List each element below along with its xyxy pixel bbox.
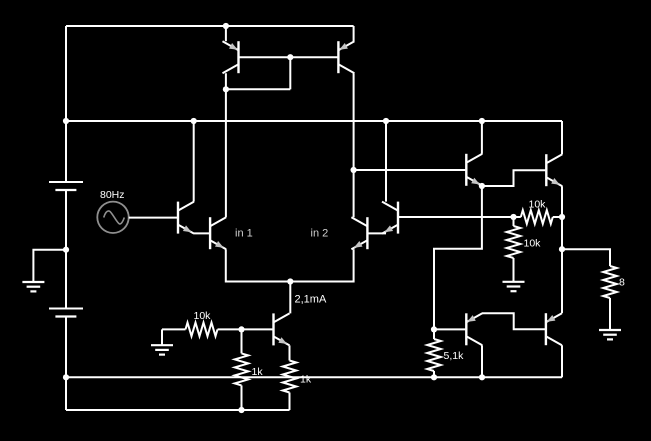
node rail121 Q5 <box>383 118 389 124</box>
node left mid <box>63 247 69 253</box>
svg-text:8: 8 <box>619 276 625 288</box>
wire R6 to ground <box>513 258 515 281</box>
wire battery B2 down <box>65 317 67 378</box>
wire battery B1 to node <box>65 190 67 250</box>
ground GND2 <box>151 345 173 354</box>
label 10k R1 <box>194 310 212 322</box>
wire Q3 emitter to Q4 base <box>194 232 210 234</box>
resistor R6 10k <box>507 226 521 258</box>
label 5,1k R4 <box>444 350 465 362</box>
wire Q5 base feedback <box>398 216 514 218</box>
node mirror base <box>287 54 293 60</box>
wire left column upper <box>65 26 67 182</box>
wire Q11 collector down <box>561 345 563 377</box>
wire GND2 to R1 <box>162 328 186 330</box>
node bottom rail <box>238 407 244 413</box>
wire Q9 emitter down <box>561 186 563 313</box>
node tail <box>287 278 293 284</box>
wire Q1 collector down to Q4 <box>225 73 227 217</box>
wire V1 to Q3 base <box>129 217 178 219</box>
battery B2 short plate <box>55 315 76 317</box>
ac source V1 <box>97 202 128 233</box>
resistor R5 10k <box>521 210 553 224</box>
wire node to Q10 base <box>434 328 466 330</box>
wire Q4 emitter down <box>226 249 290 281</box>
wire Q7 emitter to R3 <box>289 345 291 360</box>
resistor R3 1k <box>283 361 297 393</box>
svg-text:10k: 10k <box>529 198 547 210</box>
npn transistor Q6 <box>351 217 367 249</box>
node Q10 base <box>431 326 437 332</box>
bottom rail <box>66 409 290 411</box>
wire Q5 emitter to Q6 base <box>367 232 386 234</box>
wire Q8 emitter dogleg to Q9 base <box>482 170 546 186</box>
npn transistor Q5 <box>382 202 398 234</box>
node rail121 left <box>63 118 69 124</box>
npn transistor Q3 <box>178 202 194 234</box>
label 10k R6 <box>524 237 542 249</box>
wire tap to R6 <box>513 217 515 226</box>
wire R3 to bottom rail <box>289 393 291 411</box>
node Q1 emitter top rail <box>223 23 229 29</box>
wire tail to Q7 collector <box>289 282 291 314</box>
label 10k R5 <box>529 198 547 210</box>
battery B1 long plate <box>49 181 83 183</box>
svg-text:80Hz: 80Hz <box>100 189 125 201</box>
pnp transistor Q10 <box>466 313 482 345</box>
label 8 R7 <box>619 276 625 288</box>
wire top supply rail <box>66 25 354 27</box>
label 1k R3 <box>300 373 312 385</box>
pnp transistor Q1 <box>223 41 239 73</box>
wire R5 to output <box>553 216 562 218</box>
wire node to R4 <box>433 329 435 339</box>
svg-text:in 2: in 2 <box>311 227 329 239</box>
wire Q8 emitter to bias node <box>434 186 482 329</box>
wire diode link horizontal <box>226 88 290 90</box>
svg-text:1k: 1k <box>300 373 312 385</box>
wire Q2 emitter <box>353 26 355 41</box>
wire R1 to node <box>218 328 242 330</box>
npn transistor Q9 <box>546 154 562 186</box>
svg-text:10k: 10k <box>524 237 542 249</box>
ground GND4 <box>599 330 621 339</box>
rail V+ y121 <box>66 120 562 122</box>
wire R4 to rail377 <box>433 371 435 377</box>
npn transistor Q8 <box>466 154 482 186</box>
wire mirror base link <box>239 56 339 58</box>
label in 2 <box>311 227 329 239</box>
wire rail corner to Q9 collector <box>561 121 563 154</box>
resistor R1 10k <box>186 323 218 337</box>
wire Q2 collector down <box>353 73 355 217</box>
pnp transistor Q2 <box>338 41 354 73</box>
wire mirror out to Q8 base <box>354 169 467 171</box>
node mirror out <box>351 167 357 173</box>
resistor R7 8ohm <box>603 266 617 298</box>
node left lower rail <box>63 374 69 380</box>
wire Q8 collector up <box>481 121 483 154</box>
wire Q10 emitter to Q11 base <box>482 313 546 329</box>
ground GND3 <box>503 282 525 291</box>
svg-text:5,1k: 5,1k <box>444 350 465 362</box>
npn transistor Q7 <box>274 313 290 345</box>
node rail377 Q10 <box>479 374 485 380</box>
wire output to R7 <box>562 249 610 266</box>
svg-text:10k: 10k <box>194 310 212 322</box>
battery B1 short plate <box>55 189 76 191</box>
wire Q6 emitter down <box>290 249 353 281</box>
battery B2 long plate <box>49 308 83 310</box>
wire tap to R5 <box>514 216 521 218</box>
resistor R4 5.1k <box>427 339 441 371</box>
node output top <box>559 214 565 220</box>
wire node to battery B2 <box>65 250 67 309</box>
svg-text:in 1: in 1 <box>235 227 253 239</box>
wire Q3 collector up <box>193 121 195 202</box>
npn transistor Q4 <box>210 217 226 249</box>
node rail377 R4 <box>431 374 437 380</box>
wire Q10 collector down <box>481 345 483 377</box>
wire diode link vertical <box>289 57 291 89</box>
wire R2 to bottom rail <box>241 385 243 410</box>
pnp transistor Q11 <box>546 313 562 345</box>
node output mid <box>559 246 565 252</box>
node rail121 Q8 <box>479 118 485 124</box>
node Q1 collector <box>223 86 229 92</box>
wire R7 to ground <box>609 298 611 329</box>
svg-text:1k: 1k <box>252 366 264 378</box>
label 1k R2 <box>252 366 264 378</box>
node feedback tap <box>510 214 516 220</box>
node Q8 emitter <box>479 183 485 189</box>
resistor R2 1k <box>235 353 249 385</box>
svg-text:2,1mA: 2,1mA <box>295 293 327 305</box>
rail y377 <box>66 376 562 378</box>
wire left column bottom <box>65 377 67 410</box>
wire Q1 emitter <box>225 26 227 41</box>
wire node to R2 <box>241 329 243 353</box>
node Q7 base <box>238 326 244 332</box>
label 80Hz <box>100 189 125 201</box>
wire Q5 collector up <box>385 121 387 202</box>
wire to ground stub <box>33 250 66 281</box>
node rail121 Q3 <box>191 118 197 124</box>
label 2,1mA <box>295 293 327 305</box>
wire GND2 stub <box>161 329 163 344</box>
ground GND1 <box>22 282 44 291</box>
label in 1 <box>235 227 253 239</box>
wire node to Q7 base <box>242 328 274 330</box>
